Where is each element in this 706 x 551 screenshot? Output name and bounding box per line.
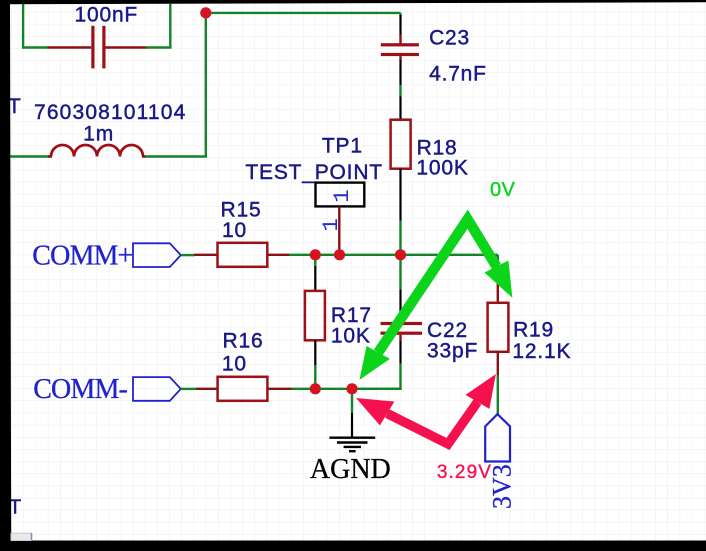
svg-text:COMM-: COMM- <box>33 374 127 405</box>
svg-text:12.1K: 12.1K <box>512 340 571 363</box>
junction <box>395 249 406 260</box>
svg-text:R19: R19 <box>513 319 554 342</box>
scrollbar chip <box>11 533 32 540</box>
wire (black segment) <box>399 15 401 35</box>
svg-text:10K: 10K <box>331 324 371 347</box>
svg-text:760308101104: 760308101104 <box>34 101 186 124</box>
svg-text:C23: C23 <box>429 26 470 49</box>
ground AGND <box>329 413 375 452</box>
wire (black segment) <box>314 340 316 365</box>
wire <box>399 221 401 255</box>
wire <box>314 365 316 389</box>
wire <box>205 13 207 157</box>
svg-text:TEST_POINT: TEST_POINT <box>245 161 383 184</box>
window frame left <box>0 0 11 541</box>
svg-text:1m: 1m <box>83 122 114 145</box>
resistor R16 <box>196 377 292 401</box>
resistor R17 <box>305 291 325 340</box>
svg-text:R16: R16 <box>223 330 264 353</box>
wire (black segment) <box>399 96 401 120</box>
wire (black segment) <box>314 266 316 291</box>
wire <box>352 364 401 389</box>
svg-text:1: 1 <box>329 189 355 203</box>
inductor L? 760308101104 1m <box>48 145 146 157</box>
annotation arrow (green, 0V) <box>360 219 513 380</box>
wire <box>497 375 499 414</box>
svg-text:1: 1 <box>318 218 344 232</box>
wire <box>289 254 498 256</box>
wire <box>351 389 353 413</box>
svg-text:COMM+: COMM+ <box>32 240 132 271</box>
capacitor C30 100nF <box>48 26 147 69</box>
capacitor C22 <box>381 320 423 341</box>
svg-text:3.29V: 3.29V <box>437 462 492 483</box>
junction <box>346 383 357 394</box>
junction <box>310 249 321 260</box>
resistor R19 <box>488 270 509 375</box>
hierarchical label COMM+ <box>32 240 181 271</box>
wire (black segment) <box>399 169 401 221</box>
junction <box>310 383 321 394</box>
wire <box>399 255 401 290</box>
wire <box>497 255 499 271</box>
hierarchical label COMM- <box>33 374 181 405</box>
svg-text:TP1: TP1 <box>322 134 363 157</box>
svg-text:33pF: 33pF <box>427 340 478 363</box>
svg-text:4.7nF: 4.7nF <box>429 63 487 86</box>
wire (black segment) <box>399 341 401 364</box>
svg-text:100K: 100K <box>416 156 468 179</box>
wire (black segment) <box>399 60 401 85</box>
annotation arrow (pink, 3.29V) <box>356 374 496 444</box>
wire <box>314 255 316 266</box>
junction <box>334 249 345 260</box>
test point TP1 <box>316 183 365 255</box>
svg-text:10: 10 <box>222 352 247 375</box>
wire <box>399 13 401 17</box>
window frame bottom <box>0 541 706 551</box>
wire <box>181 254 195 256</box>
wire <box>146 155 208 157</box>
power symbol 3V3 <box>485 414 510 461</box>
svg-text:10: 10 <box>222 219 247 242</box>
svg-text:0V: 0V <box>490 179 516 201</box>
junction <box>200 7 211 18</box>
wire <box>10 155 51 157</box>
svg-text:100nF: 100nF <box>75 3 139 26</box>
resistor R15 <box>194 243 290 267</box>
wire <box>146 4 170 48</box>
wire <box>399 85 401 96</box>
window frame top <box>0 0 706 4</box>
wire (black segment) <box>399 289 401 322</box>
wire <box>206 12 401 14</box>
svg-text:AGND: AGND <box>310 454 391 485</box>
resistor R18 <box>391 120 411 169</box>
wire <box>181 388 197 390</box>
wire <box>23 4 48 48</box>
wire <box>292 388 402 390</box>
capacitor C23 <box>381 35 419 61</box>
